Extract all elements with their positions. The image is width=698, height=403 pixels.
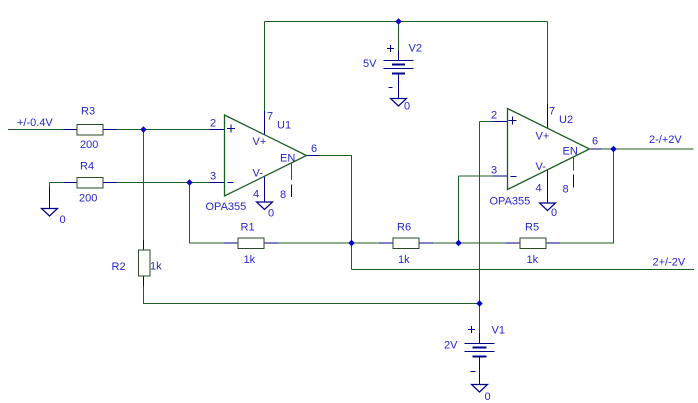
svg-text:7: 7: [267, 111, 273, 123]
svg-text:1k: 1k: [244, 254, 256, 266]
svg-text:R3: R3: [81, 106, 95, 118]
svg-text:R6: R6: [397, 222, 411, 234]
svg-text:6: 6: [592, 136, 598, 148]
svg-text:200: 200: [80, 139, 98, 151]
svg-text:V2: V2: [409, 43, 422, 55]
svg-text:5V: 5V: [363, 58, 377, 70]
svg-text:6: 6: [311, 143, 317, 155]
svg-text:4: 4: [536, 183, 542, 195]
svg-text:V-: V-: [536, 161, 547, 173]
svg-text:V+: V+: [536, 131, 550, 143]
svg-text:OPA355: OPA355: [206, 201, 247, 213]
svg-text:OPA355: OPA355: [490, 196, 531, 208]
svg-text:3: 3: [491, 165, 497, 177]
svg-text:0: 0: [551, 207, 557, 219]
svg-text:1k: 1k: [150, 261, 162, 273]
svg-text:2-/+2V: 2-/+2V: [649, 134, 682, 146]
svg-text:0: 0: [404, 101, 410, 113]
svg-text:200: 200: [79, 193, 97, 205]
svg-text:0: 0: [60, 214, 66, 226]
svg-text:2: 2: [491, 110, 497, 122]
svg-text:R1: R1: [241, 222, 255, 234]
svg-text:EN: EN: [563, 146, 578, 158]
svg-text:1k: 1k: [527, 254, 539, 266]
svg-text:7: 7: [549, 106, 555, 118]
svg-text:EN: EN: [280, 153, 295, 165]
svg-text:+/-0.4V: +/-0.4V: [17, 117, 53, 129]
svg-text:0: 0: [268, 208, 274, 220]
svg-text:U2: U2: [559, 114, 573, 126]
svg-text:R5: R5: [525, 222, 539, 234]
svg-text:V+: V+: [253, 136, 267, 148]
svg-text:2V: 2V: [444, 340, 458, 352]
svg-text:U1: U1: [277, 120, 291, 132]
svg-text:R4: R4: [80, 161, 94, 173]
svg-text:1k: 1k: [398, 254, 410, 266]
svg-text:0: 0: [485, 391, 491, 403]
svg-text:2: 2: [210, 118, 216, 130]
svg-text:V-: V-: [253, 168, 264, 180]
svg-text:4: 4: [253, 189, 259, 201]
svg-text:8: 8: [280, 189, 286, 201]
svg-text:R2: R2: [112, 261, 126, 273]
svg-text:V1: V1: [492, 325, 505, 337]
svg-text:3: 3: [210, 171, 216, 183]
svg-text:2+/-2V: 2+/-2V: [653, 257, 686, 269]
svg-text:8: 8: [563, 184, 569, 196]
